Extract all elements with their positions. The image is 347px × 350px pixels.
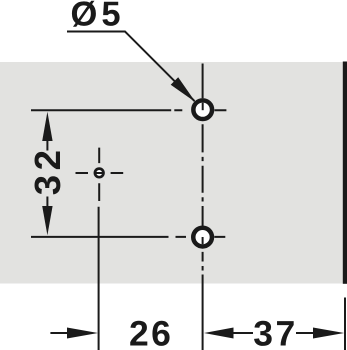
- svg-text:32: 32: [27, 146, 68, 196]
- svg-text:Ø5: Ø5: [71, 0, 125, 34]
- svg-text:37: 37: [253, 314, 298, 350]
- svg-text:26: 26: [129, 314, 174, 350]
